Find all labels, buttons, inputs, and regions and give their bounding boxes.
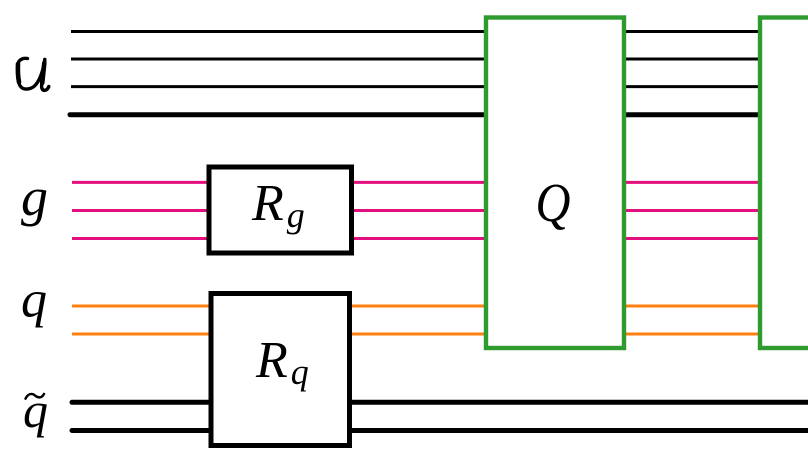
wire g3 segment Rg to Q xyxy=(350,237,486,240)
gate Rq box xyxy=(211,294,350,446)
wire q1 (quark register, orange) xyxy=(72,305,213,308)
wire qtilde2 thick xyxy=(72,428,213,433)
label register U (script U, hand-drawn calligraphic) xyxy=(18,58,49,90)
wire q1 segment Q to second box xyxy=(625,305,759,308)
wire g3 xyxy=(72,237,211,240)
svg-text:Q: Q xyxy=(536,173,571,234)
svg-text:q: q xyxy=(23,382,48,438)
wire U4 thick (register U, qubit 4) xyxy=(70,112,486,117)
wire q2 xyxy=(72,333,213,336)
wire g2 segment Q to second box xyxy=(625,209,759,212)
wire U3 (register U, qubit 3) xyxy=(71,85,486,88)
wire g1 (gluon register, magenta) xyxy=(72,181,211,184)
wire q2 segment Q to second box xyxy=(625,333,759,336)
svg-text:g: g xyxy=(21,167,48,227)
wire qtilde1 thick (antiquark register) xyxy=(72,400,213,405)
wire q2 segment Rq to Q xyxy=(348,333,486,336)
wire g1 segment Rg to Q xyxy=(350,181,486,184)
gate Rg box xyxy=(209,167,352,253)
wire U2 segment between Q and second box xyxy=(625,58,759,61)
wire g1 segment Q to second box xyxy=(625,181,759,184)
wire q1 segment Rq to Q xyxy=(348,305,486,308)
wire U4 segment between Q and second box xyxy=(625,112,759,117)
wire g2 xyxy=(72,209,211,212)
wire U3 segment between Q and second box xyxy=(625,85,759,88)
wire g3 segment Q to second box xyxy=(625,237,759,240)
svg-text:q: q xyxy=(21,272,47,329)
gate Q box (green) xyxy=(486,18,624,349)
gate box 2 (green, clipped at right edge) xyxy=(760,18,808,349)
wire qtilde2 segment Rq to right edge xyxy=(348,428,808,433)
wire g2 segment Rg to Q xyxy=(350,209,486,212)
wire qtilde1 segment Rq to right edge xyxy=(348,400,808,405)
wire U1 segment between Q and second box xyxy=(625,30,759,33)
wire U1 (register U, qubit 1) xyxy=(71,30,486,33)
wire U2 (register U, qubit 2) xyxy=(71,58,486,61)
tilde accent over qtilde label xyxy=(26,394,45,399)
